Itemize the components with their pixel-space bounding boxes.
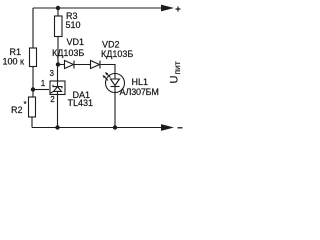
svg-text:100 к: 100 к — [3, 57, 25, 67]
svg-text:HL1: HL1 — [132, 77, 149, 87]
pin 2 wire DA1 to bottom rail — [50, 95, 57, 128]
wire node to VD1 anode — [58, 64, 65, 66]
wire node to DA1 pin 1 — [33, 79, 49, 90]
svg-text:КД103Б: КД103Б — [52, 48, 84, 58]
wire R2 to bottom rail — [31, 117, 33, 128]
net label U pit — [169, 61, 182, 83]
arrowhead + output negative — [161, 124, 183, 131]
svg-text:Uпит: Uпит — [169, 61, 182, 83]
svg-text:1: 1 — [41, 79, 46, 88]
svg-text:*: * — [24, 100, 27, 109]
svg-text:КД103Б: КД103Б — [101, 49, 133, 59]
wire top rail — [33, 7, 162, 9]
TL431 internal symbol — [50, 81, 62, 95]
wire left vertical (top rail to R1) — [32, 8, 34, 48]
arrowhead + output positive — [161, 5, 181, 12]
svg-text:VD2: VD2 — [102, 40, 120, 50]
node top rail / R3 — [56, 6, 60, 10]
op-amp U1 : DA1 TL431 box — [50, 81, 93, 108]
pin 3 wire DA1 — [50, 65, 58, 82]
node HL1 / bottom rail — [113, 125, 117, 129]
wire R3 to node — [57, 37, 59, 65]
wire VD1 to VD2 — [74, 64, 91, 66]
node junction R1/R2/pin1 — [31, 87, 35, 91]
diode VD2 — [91, 40, 134, 69]
wire VD2 to HL1 (corner) — [100, 65, 115, 74]
node R3/VD1/DA1 pin3 — [56, 62, 60, 66]
wire HL1 to bottom rail — [114, 93, 116, 128]
svg-text:2: 2 — [50, 95, 55, 104]
svg-text:R2: R2 — [11, 105, 23, 115]
resistor R2 — [11, 97, 36, 117]
LED HL1 — [103, 72, 159, 97]
diode VD1 — [52, 37, 84, 69]
wire top rail to R3 — [57, 8, 59, 16]
svg-text:3: 3 — [50, 69, 55, 78]
svg-text:R1: R1 — [10, 47, 22, 57]
wire R1 to R2 — [32, 67, 34, 98]
svg-text:АЛ307БМ: АЛ307БМ — [120, 87, 159, 97]
svg-text:TL431: TL431 — [68, 98, 94, 108]
svg-text:510: 510 — [66, 20, 81, 30]
wire bottom rail — [32, 127, 162, 129]
resistor R3 — [55, 11, 81, 37]
resistor R1 — [3, 47, 37, 67]
node DA1 pin2 / bottom rail — [55, 125, 59, 129]
svg-text:VD1: VD1 — [67, 37, 85, 47]
